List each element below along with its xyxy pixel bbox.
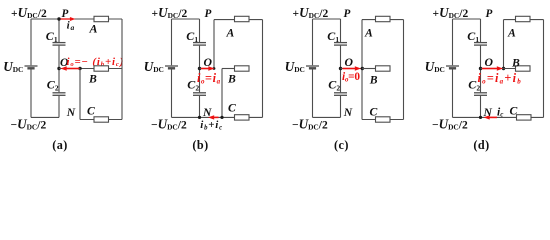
svg-text:C: C xyxy=(87,105,95,118)
load resistor C xyxy=(376,117,391,122)
wire: phase C drop from O tap xyxy=(79,69,81,120)
svg-text:O: O xyxy=(345,56,354,69)
svg-text:B: B xyxy=(511,57,520,70)
wire: phase B branch xyxy=(362,68,376,70)
wire: O wire to tap xyxy=(341,68,363,70)
wire: capacitor leg P-C1 xyxy=(199,19,201,42)
svg-text:C: C xyxy=(370,106,378,119)
capacitor C1 xyxy=(193,43,206,46)
svg-text:B: B xyxy=(369,74,378,87)
wire: capacitor leg P-C1 xyxy=(340,19,342,42)
wire: top rail from source to node P xyxy=(172,18,200,20)
wire: common drop A-O-C xyxy=(361,20,363,120)
wire: O wire to load B xyxy=(481,68,516,70)
wire: right load-neutral rail xyxy=(262,20,264,118)
node: tap junction at O wire xyxy=(361,67,364,70)
capacitor C2 xyxy=(193,93,206,96)
wire: right load-neutral rail xyxy=(403,20,405,120)
wire: phase A drop to node O xyxy=(213,20,215,69)
wire: left dc-bus rail (upper) xyxy=(312,19,314,65)
svg-text:N: N xyxy=(483,106,493,119)
wire: left dc-bus rail (lower) xyxy=(30,69,32,117)
sub-figure (b) xyxy=(144,5,263,152)
wire: O to loads B,C xyxy=(59,68,122,70)
svg-text:(b): (b) xyxy=(192,138,208,152)
svg-text:O: O xyxy=(485,56,494,69)
dc source U_DC (battery) xyxy=(25,66,38,68)
wire: capacitor leg C2-N xyxy=(480,96,482,118)
wire: bottom rail from source to node N xyxy=(31,116,59,118)
wire: right load-neutral rail xyxy=(543,20,545,118)
svg-text:C: C xyxy=(228,101,236,114)
wire: phase A loop top xyxy=(362,19,404,21)
node P (junction dot) xyxy=(57,17,60,20)
node: A tap junction xyxy=(213,67,216,70)
sub-figure (a) xyxy=(3,5,124,152)
svg-text:(c): (c) xyxy=(334,138,349,152)
capacitor C2 xyxy=(474,93,487,96)
load resistor C xyxy=(94,117,109,122)
wire: capacitor leg C1-O-C2 xyxy=(58,46,60,93)
wire: bottom rail from source to node N xyxy=(313,116,341,118)
node N (junction dot) xyxy=(198,116,201,119)
wire: capacitor leg C2-N xyxy=(58,96,60,118)
current arrow i_O xyxy=(343,68,355,70)
capacitor C1 xyxy=(334,43,347,46)
current arrow i_O = i_a+i_b xyxy=(482,68,497,70)
wire: left dc-bus rail (lower) xyxy=(452,69,454,117)
node N (junction dot) xyxy=(479,116,482,119)
svg-text:B: B xyxy=(227,72,236,85)
wire: O wire stub to phase A xyxy=(200,68,215,70)
wire: top rail from source to node P xyxy=(453,18,481,20)
dc source U_DC (battery) xyxy=(165,66,178,68)
wire: left dc-bus rail (upper) xyxy=(171,19,173,65)
node: A tap junction at O wire xyxy=(502,67,505,70)
wire: left dc-bus rail (lower) xyxy=(171,69,173,117)
svg-text:A: A xyxy=(364,26,373,39)
load resistor B xyxy=(235,66,250,71)
node O (junction dot) xyxy=(198,67,201,70)
dc source U_DC (battery) xyxy=(306,66,319,68)
sub-figure (c) xyxy=(285,5,404,152)
svg-text:P: P xyxy=(205,8,212,20)
current arrow i_a at node P xyxy=(61,18,70,20)
capacitor C2 xyxy=(334,93,347,96)
current arrow i_c into node N xyxy=(490,116,497,118)
wire: capacitor leg C1-O-C2 xyxy=(199,46,201,93)
svg-text:N: N xyxy=(202,106,212,119)
wire: left dc-bus rail (upper) xyxy=(30,19,32,65)
svg-text:P: P xyxy=(344,8,351,20)
wire: left dc-bus rail (upper) xyxy=(452,19,454,65)
wire: capacitor leg P-C1 xyxy=(480,19,482,42)
svg-text:A: A xyxy=(226,26,235,39)
svg-text:P: P xyxy=(486,8,493,20)
load resistor A xyxy=(235,16,250,21)
wire: phase C branch xyxy=(80,119,122,121)
load resistor C xyxy=(235,115,250,120)
wire: capacitor leg C2-N xyxy=(340,96,342,118)
dc source U_DC (battery) xyxy=(446,66,459,68)
load resistor B xyxy=(94,66,109,71)
svg-text:O: O xyxy=(204,56,213,69)
load resistor A xyxy=(376,16,391,21)
wire: capacitor leg C1-O-C2 xyxy=(340,46,342,93)
wire: phase A drop to node O xyxy=(503,20,505,69)
load resistor C xyxy=(517,115,532,120)
load resistor B xyxy=(376,66,391,71)
svg-text:N: N xyxy=(66,106,76,119)
wire: phase B branch to load xyxy=(222,68,235,70)
wire: top rail P to phase A and right rail xyxy=(31,18,122,20)
svg-text:C: C xyxy=(510,105,518,118)
load resistor A xyxy=(94,16,109,21)
capacitor C1 xyxy=(53,43,66,46)
sub-figure (d) xyxy=(425,5,544,152)
wire: bottom rail N extending to loads xyxy=(453,116,544,118)
current arrow i_O into node O xyxy=(67,68,80,70)
wire: top rail from source to node P xyxy=(313,18,341,20)
node: B tap junction on N rail xyxy=(220,116,223,119)
load resistor B xyxy=(516,66,531,71)
wire: capacitor leg C1-O-C2 xyxy=(480,46,482,93)
svg-text:(d): (d) xyxy=(473,138,489,152)
wire: left dc-bus rail (lower) xyxy=(312,69,314,117)
svg-text:N: N xyxy=(343,106,353,119)
node O (junction dot) xyxy=(339,67,342,70)
svg-text:A: A xyxy=(89,22,98,36)
load resistor A xyxy=(516,16,531,21)
capacitor C2 xyxy=(53,93,66,96)
svg-text:(a): (a) xyxy=(52,138,68,152)
svg-text:P: P xyxy=(62,8,69,20)
capacitor C1 xyxy=(474,43,487,46)
svg-text:io=0: io=0 xyxy=(342,71,360,83)
svg-text:A: A xyxy=(507,26,516,39)
wire: capacitor leg P-C1 xyxy=(58,19,60,42)
current arrow i_O out of node O xyxy=(201,68,208,70)
wire: phase A loop top xyxy=(214,19,263,21)
node O (junction dot) xyxy=(57,67,60,70)
node O (junction dot) xyxy=(479,67,482,70)
current arrow i_b+i_c into node N xyxy=(214,116,218,118)
wire: capacitor leg C2-N xyxy=(199,96,201,118)
wire: phase A loop top xyxy=(504,19,544,21)
wire: right load-neutral rail xyxy=(121,19,123,120)
wire: phase C branch xyxy=(362,119,404,121)
svg-text:B: B xyxy=(88,72,97,85)
node: B/C tap junction xyxy=(78,67,81,70)
wire: phase B drop to bottom rail xyxy=(221,69,223,118)
wire: bottom rail N extending to loads xyxy=(172,116,263,118)
